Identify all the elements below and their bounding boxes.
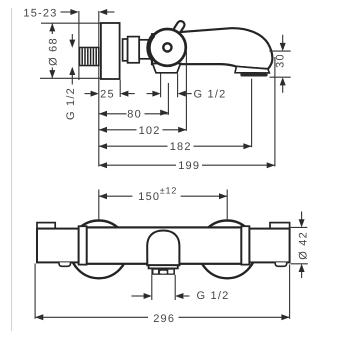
aerator windows	[154, 270, 159, 274]
svg-text:296: 296	[153, 313, 175, 325]
dim 296	[35, 264, 290, 325]
wall union circle left	[70, 221, 128, 279]
extension 182 (aerator center)	[251, 79, 253, 148]
left handle tab	[37, 223, 55, 229]
svg-text:G 1/2: G 1/2	[197, 290, 230, 302]
dim 25	[85, 89, 135, 101]
union nut small step	[123, 39, 128, 61]
right handle tab	[270, 223, 290, 229]
svg-text:199: 199	[178, 160, 200, 172]
left ring	[79, 226, 87, 264]
aerator band	[240, 73, 267, 77]
left handle bump	[59, 262, 71, 266]
extension 199 (spout tip)	[274, 57, 276, 167]
wall escutcheon (side)	[101, 23, 120, 79]
svg-text:80: 80	[127, 109, 142, 121]
bottom connector under handle	[153, 64, 181, 73]
outlet aerator	[151, 268, 175, 274]
center extension for 80	[167, 83, 169, 115]
lever tab on handle	[173, 20, 186, 35]
svg-text:102: 102	[139, 125, 161, 137]
svg-text:Ø 42: Ø 42	[297, 231, 309, 260]
spout body	[152, 28, 272, 69]
extension 102 (spout drop center)	[185, 50, 187, 131]
threaded nipple (hatched)	[80, 48, 99, 66]
svg-text:G 1/2: G 1/2	[194, 89, 227, 101]
outlet flange	[149, 265, 178, 268]
svg-text:25: 25	[100, 89, 115, 101]
dim 15-23	[23, 8, 114, 20]
faint left margin line	[11, 8, 13, 331]
extension line left (wall plate face)	[98, 11, 100, 167]
dim 102	[99, 125, 187, 137]
svg-text:182: 182	[170, 141, 192, 153]
left handle	[37, 229, 79, 263]
handle hub dot	[163, 43, 171, 51]
G 1/2 label left (wall connection)	[65, 34, 77, 120]
wall union circle right	[198, 221, 256, 279]
dim 30	[269, 35, 290, 93]
dim 182	[99, 141, 252, 153]
svg-text:150: 150	[138, 191, 160, 203]
connector shadow crescent on left rim	[148, 35, 153, 60]
dim Ø68	[40, 23, 101, 78]
union nut	[128, 37, 140, 63]
extension escutcheon right face	[119, 80, 121, 97]
dim 150±12	[99, 186, 227, 221]
dim 80	[99, 109, 169, 121]
handle knob (side)	[149, 29, 186, 66]
svg-text:±12: ±12	[160, 186, 177, 196]
wall face line	[78, 11, 80, 80]
svg-text:15-23: 15-23	[23, 8, 57, 20]
tailpiece	[139, 40, 152, 59]
center dome (cartridge housing)	[147, 231, 179, 266]
dim 199	[99, 160, 275, 172]
right ring	[241, 226, 249, 264]
right handle	[249, 229, 289, 263]
spout outlet rim	[235, 66, 269, 73]
dim G 1/2 (bottom outlet)	[132, 275, 230, 302]
dim Ø42	[291, 212, 310, 279]
svg-text:Ø 68: Ø 68	[48, 37, 60, 66]
G1/2 stub ticks under spout	[160, 74, 162, 98]
svg-text:G 1/2: G 1/2	[65, 87, 77, 120]
dim G 1/2 (spout connector)	[147, 89, 227, 101]
body bar	[87, 227, 242, 263]
svg-text:30: 30	[274, 53, 286, 68]
right handle bump	[275, 262, 287, 266]
